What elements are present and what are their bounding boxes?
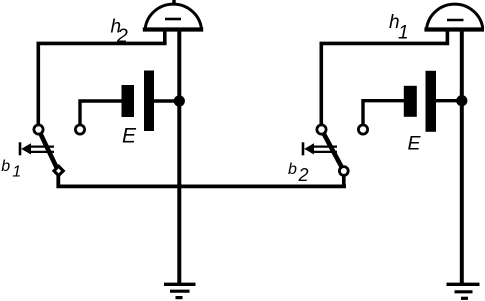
svg-text:1: 1 (12, 164, 21, 181)
svg-text:1: 1 (398, 23, 409, 44)
svg-text:E: E (408, 133, 422, 155)
svg-text:2: 2 (298, 165, 309, 185)
svg-text:b: b (1, 158, 10, 175)
svg-text:b: b (288, 161, 297, 178)
svg-text:E: E (122, 125, 137, 148)
svg-text:2: 2 (116, 25, 128, 47)
